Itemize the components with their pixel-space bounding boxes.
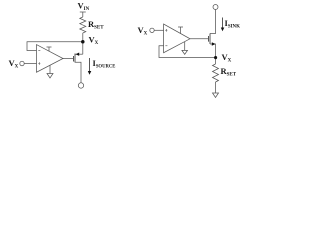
wire input terminal VX to op-amp (right circuit) — [154, 29, 163, 31]
wire resistor to ground (right) — [215, 82, 217, 93]
wire input terminal VX to op-amp noninverting input — [24, 63, 36, 65]
svg-text:VX: VX — [9, 58, 19, 69]
resistor RSET (left) — [80, 17, 86, 33]
op-amp U2 supply stub — [178, 27, 183, 34]
op-amp U2 ground stub — [184, 42, 186, 51]
wire op-amp output to PMOS gate — [63, 58, 74, 60]
op-amp U1 ground stub — [49, 65, 51, 73]
op-amp U1 minus sign — [38, 49, 40, 52]
terminal VX (right input) — [150, 28, 154, 32]
ground symbol under U2 — [182, 50, 188, 54]
svg-text:ISOURCE: ISOURCE — [93, 58, 116, 69]
transistor Q2 source arrow — [212, 42, 216, 45]
transistor Q1 PMOS gate bar — [73, 56, 75, 62]
wire feedback from node VX to op-amp inverting input — [159, 46, 216, 58]
svg-text:VX: VX — [89, 35, 99, 46]
op-amp U2 triangle — [164, 24, 190, 53]
node A: VX junction dot (left) — [81, 40, 85, 44]
transistor Q1 source arrow — [76, 53, 80, 56]
wire feedback VX node to op-amp inverting input — [27, 42, 83, 51]
op-amp U1 plus sign — [38, 62, 40, 65]
transistor Q2 source lead — [210, 44, 216, 58]
node B: VX junction dot (right) — [214, 56, 217, 59]
wire op-amp output to NMOS gate — [190, 38, 209, 40]
op-amp U1 triangle — [37, 45, 64, 73]
transistor Q1 drain lead — [75, 62, 81, 83]
op-amp U2 minus sign — [165, 44, 167, 47]
ground symbol under U1 — [47, 74, 53, 79]
transistor Q1 source lead — [76, 53, 83, 55]
resistor RSET (right) — [213, 64, 219, 82]
transistor Q2 NMOS gate bar — [208, 36, 210, 42]
transistor Q2 NMOS channel bar — [209, 34, 211, 45]
terminal drain (right circuit top) — [213, 5, 218, 10]
op-amp U2 plus sign — [165, 29, 167, 32]
current arrow ISINK — [221, 18, 225, 32]
svg-text:VX: VX — [138, 25, 148, 36]
op-amp U1 supply stub — [47, 47, 52, 51]
svg-text:ISINK: ISINK — [225, 18, 241, 29]
wire node VX to resistor RSET (right) — [215, 58, 217, 65]
terminal VX (left input) — [20, 61, 24, 65]
wire resistor bottom to node VX — [82, 33, 84, 42]
transistor Q2 drain lead — [210, 10, 216, 34]
transistor Q1 PMOS channel bar — [74, 54, 76, 63]
supply VIN T-bar — [80, 12, 86, 17]
terminal output (left circuit bottom) — [78, 83, 83, 88]
svg-text:RSET: RSET — [88, 19, 104, 30]
current arrow ISOURCE — [88, 58, 92, 75]
svg-text:VIN: VIN — [78, 1, 90, 12]
ground symbol (right bottom) — [213, 93, 219, 98]
svg-text:RSET: RSET — [221, 66, 237, 77]
svg-text:VX: VX — [222, 52, 232, 63]
wire node VX down to PMOS source bend — [82, 42, 84, 55]
